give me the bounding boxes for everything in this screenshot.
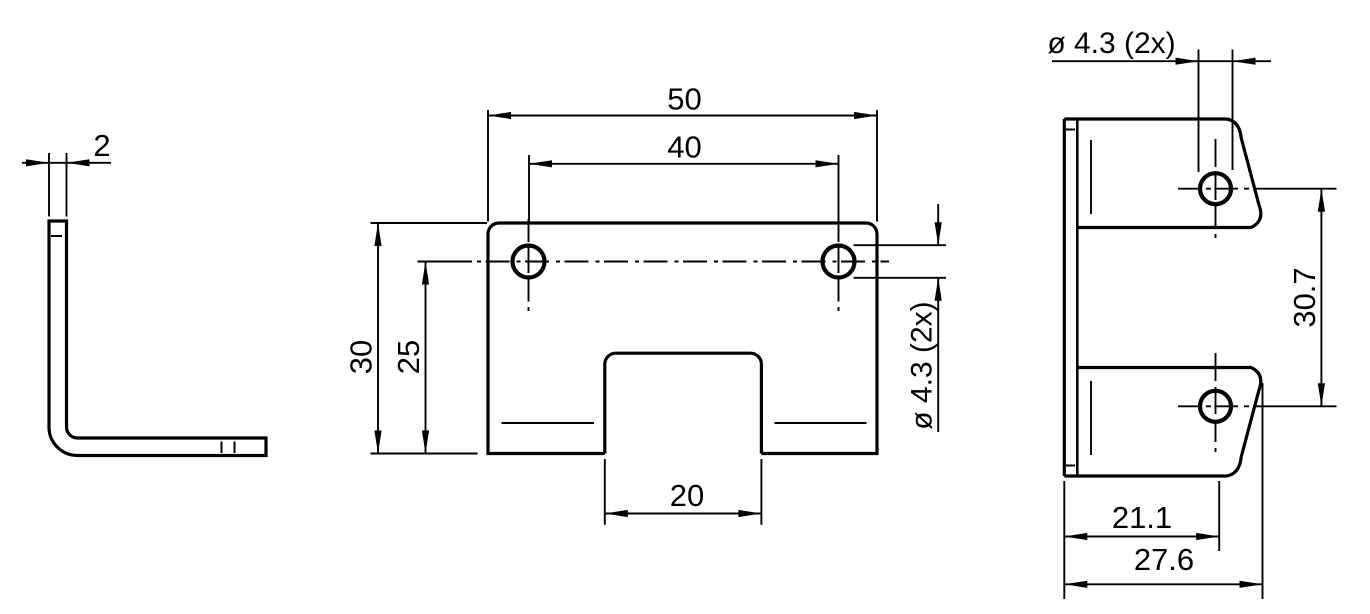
- spine tick top: [1066, 129, 1075, 131]
- center line vertical bottom hole: [1215, 353, 1217, 456]
- dim 27.6: extension right: [1262, 383, 1264, 599]
- dim 50: extension right: [876, 110, 878, 222]
- svg-text:ø 4.3 (2x): ø 4.3 (2x): [1047, 27, 1175, 60]
- dim 27.6: arrow left: [1064, 581, 1087, 588]
- dim 2: dimension line: [22, 162, 111, 164]
- dim hole dia: arrow down: [935, 222, 942, 245]
- dim dia 4.3 top: arrow left (points right): [1176, 58, 1199, 65]
- dim hole dia: tangent line top: [854, 244, 947, 246]
- dim 50: extension left: [487, 110, 489, 222]
- dim dia 4.3 top: extension right: [1232, 50, 1234, 171]
- dim 30.7: arrow top: [1318, 189, 1325, 212]
- horizontal center line through holes: [420, 261, 889, 263]
- svg-text:30: 30: [344, 340, 379, 374]
- dim 40: arrow right: [816, 160, 839, 167]
- dim 25: arrow bottom: [422, 431, 429, 454]
- dim hole dia: dimension line upper: [937, 204, 939, 245]
- dim 21.1: dimension line: [1064, 536, 1219, 538]
- dim 30: extension top: [371, 222, 488, 224]
- dim hole dia: tangent line bottom: [854, 277, 947, 279]
- dim dia 4.3 top: extension left: [1198, 50, 1200, 173]
- dim 50: arrow right: [854, 112, 877, 119]
- dim 40: dimension line: [529, 163, 839, 165]
- dim 40: extension right: [838, 155, 840, 222]
- top flange outline: [1064, 119, 1261, 228]
- svg-text:30.7: 30.7: [1287, 267, 1322, 327]
- dim 21.1: arrow left: [1064, 533, 1087, 540]
- bend line right: [775, 422, 867, 424]
- dim 20: extension left: [604, 459, 606, 525]
- bend tick 2 right end of horizontal leg: [234, 442, 236, 454]
- plate outline: [488, 223, 877, 454]
- center line horizontal top hole: [1174, 188, 1258, 190]
- center line vertical top hole: [1215, 139, 1217, 242]
- svg-text:40: 40: [667, 130, 701, 165]
- dim 27.6: arrow right: [1240, 581, 1263, 588]
- svg-text:50: 50: [667, 81, 701, 116]
- bend line left: [502, 422, 595, 424]
- dim 20: extension right: [760, 459, 762, 525]
- bend line bottom flange: [1090, 381, 1092, 455]
- dim 30.7: dimension line: [1320, 189, 1322, 407]
- dim 25: arrow top: [422, 262, 429, 285]
- spine inner line: [1076, 119, 1079, 476]
- dim 40: extension left: [528, 155, 530, 222]
- bend line top flange: [1090, 140, 1092, 214]
- dim 30: extension bottom: [371, 453, 478, 455]
- svg-text:2: 2: [93, 128, 110, 163]
- dim 20: arrow left: [605, 510, 628, 517]
- dim 50: dimension line: [488, 115, 877, 117]
- bend tick 1 right end of horizontal leg: [221, 442, 223, 454]
- dim 30: arrow top: [374, 223, 381, 246]
- dim 2: arrow left (points right): [26, 159, 49, 166]
- dim 21.1: arrow right: [1196, 533, 1219, 540]
- svg-text:25: 25: [391, 340, 426, 374]
- svg-text:21.1: 21.1: [1112, 500, 1172, 535]
- svg-text:27.6: 27.6: [1134, 542, 1194, 577]
- dim 50: arrow left: [488, 112, 511, 119]
- dim dia 4.3 top: dimension line: [1052, 60, 1271, 62]
- svg-text:ø 4.3 (2x): ø 4.3 (2x): [906, 301, 939, 429]
- dim 30.7: extension top (solid): [1258, 188, 1337, 190]
- dim 30.7: arrow bottom: [1318, 383, 1325, 406]
- dim 40: arrow left: [529, 160, 552, 167]
- vertical center line right hole: [838, 219, 840, 311]
- bend tick top of vertical leg: [51, 235, 62, 237]
- hole left: [513, 246, 545, 278]
- dim 2: extension line right: [66, 153, 68, 217]
- L-profile outline: [49, 221, 266, 456]
- dim 20: arrow right: [738, 510, 761, 517]
- dim 25: dimension line: [425, 262, 427, 454]
- bottom edge left segment: [487, 452, 605, 455]
- spine tick bottom: [1066, 465, 1075, 467]
- hole bottom: [1200, 391, 1231, 422]
- spine left edge: [1063, 119, 1066, 476]
- dim dia 4.3 top: arrow right (points left): [1233, 58, 1256, 65]
- svg-text:20: 20: [670, 478, 704, 513]
- dim hole dia: dimension line lower: [937, 278, 939, 432]
- dim 25: extension top: [418, 261, 473, 263]
- center line horizontal bottom hole: [1174, 405, 1258, 407]
- dim 27.6: dimension line: [1064, 583, 1262, 585]
- hole right: [823, 246, 855, 278]
- bottom edge right segment: [761, 452, 878, 455]
- dim 30.7: extension bottom (solid): [1258, 405, 1337, 407]
- dim 21.1: extension left: [1063, 481, 1065, 599]
- dim 2: arrow right (points left): [67, 159, 90, 166]
- dim 30: arrow bottom: [374, 431, 381, 454]
- hole top: [1200, 173, 1231, 204]
- dim 30: dimension line: [377, 223, 379, 454]
- dim 2: extension line left: [48, 153, 50, 217]
- dim 20: dimension line: [605, 513, 762, 515]
- dim 21.1: extension right: [1218, 481, 1220, 551]
- bottom flange outline: [1064, 368, 1261, 477]
- dim hole dia: arrow up: [935, 278, 942, 301]
- vertical center line left hole: [528, 219, 530, 311]
- notch outline: [605, 353, 762, 453]
